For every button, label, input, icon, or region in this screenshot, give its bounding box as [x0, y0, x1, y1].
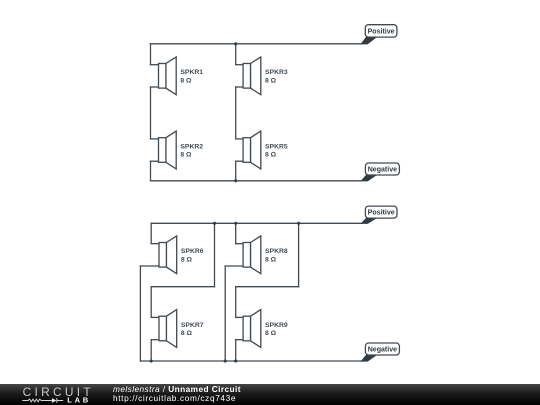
svg-text:SPKR8: SPKR8 [265, 248, 288, 255]
svg-text:8 Ω: 8 Ω [265, 152, 277, 159]
svg-text:8 Ω: 8 Ω [181, 256, 193, 263]
svg-text:SPKR6: SPKR6 [181, 248, 204, 255]
svg-text:LAB: LAB [67, 396, 91, 405]
svg-text:8 Ω: 8 Ω [181, 330, 193, 337]
svg-text:SPKR3: SPKR3 [265, 69, 288, 76]
svg-text:8 Ω: 8 Ω [180, 152, 192, 159]
svg-text:Negative: Negative [368, 167, 397, 174]
svg-text:SPKR7: SPKR7 [181, 322, 204, 329]
svg-text:8 Ω: 8 Ω [180, 77, 192, 84]
svg-text:SPKR9: SPKR9 [265, 322, 288, 329]
svg-text:Positive: Positive [368, 210, 395, 217]
svg-text:Positive: Positive [368, 29, 395, 36]
svg-text:8 Ω: 8 Ω [265, 330, 277, 337]
svg-text:SPKR5: SPKR5 [265, 143, 288, 150]
svg-text:SPKR2: SPKR2 [180, 143, 203, 150]
svg-text:8 Ω: 8 Ω [265, 77, 277, 84]
svg-text:SPKR1: SPKR1 [180, 69, 203, 76]
svg-text:Negative: Negative [368, 347, 397, 354]
svg-text:8 Ω: 8 Ω [265, 256, 277, 263]
